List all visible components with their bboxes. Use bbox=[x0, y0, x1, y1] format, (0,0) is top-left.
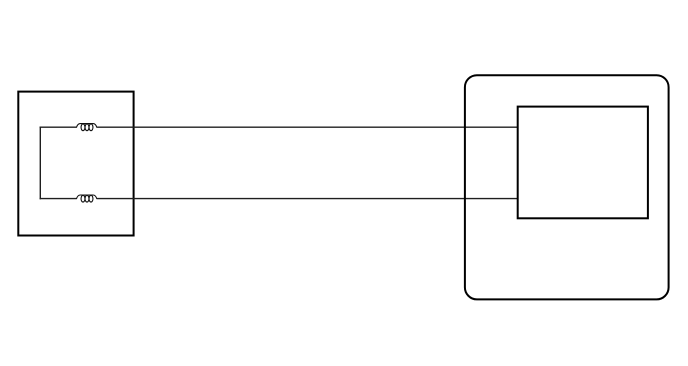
block B (right rounded enclosure) bbox=[465, 75, 669, 299]
block A (left device box) bbox=[18, 92, 133, 236]
module U1 (inner rectangle inside block B) bbox=[518, 107, 648, 219]
wire (bottom, inductor L2 to block B inner module) bbox=[97, 198, 518, 200]
inductor L1 (top coil) bbox=[76, 124, 97, 131]
inductor L2 (bottom coil) bbox=[76, 195, 97, 202]
wire (top, inductor L1 to block B inner module) bbox=[97, 126, 518, 128]
wire (bottom, left stub to inductor L2) bbox=[40, 198, 77, 200]
wire (top, left stub to inductor L1) bbox=[40, 126, 77, 128]
wire (left vertical bus inside block A) bbox=[39, 127, 41, 200]
